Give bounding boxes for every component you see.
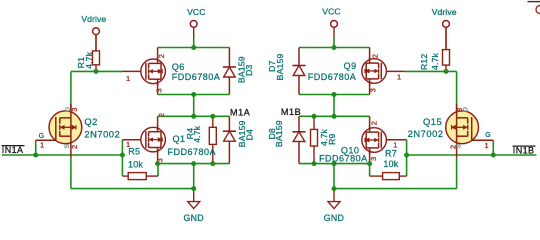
svg-text:D3: D3	[244, 64, 254, 75]
svg-text:GND: GND	[324, 213, 344, 223]
svg-text:R12: R12	[419, 54, 429, 70]
svg-text:Q2: Q2	[84, 116, 98, 127]
svg-text:3: 3	[156, 158, 165, 162]
svg-text:2: 2	[157, 54, 166, 58]
svg-text:VCC: VCC	[187, 7, 205, 17]
svg-text:2: 2	[70, 145, 79, 149]
svg-text:IN1B: IN1B	[513, 146, 535, 156]
svg-text:Q6: Q6	[172, 62, 185, 72]
svg-text:10k: 10k	[128, 160, 143, 170]
svg-text:Q1: Q1	[173, 134, 186, 144]
svg-text:M1B: M1B	[281, 107, 301, 117]
svg-text:Q15: Q15	[423, 116, 442, 127]
svg-text:VCC: VCC	[322, 7, 340, 17]
svg-text:FDD6780A: FDD6780A	[308, 72, 357, 82]
svg-text:2N7002: 2N7002	[84, 128, 120, 139]
svg-text:D: D	[462, 107, 469, 112]
svg-text:1: 1	[393, 141, 397, 150]
svg-text:BA159: BA159	[274, 120, 284, 147]
svg-text:4.7k: 4.7k	[430, 52, 440, 70]
svg-text:S: S	[64, 143, 71, 148]
svg-text:G: G	[485, 132, 491, 139]
svg-text:D4: D4	[244, 129, 254, 140]
svg-text:FDD6780A: FDD6780A	[168, 147, 217, 157]
svg-text:2: 2	[370, 121, 379, 125]
svg-text:G: G	[39, 133, 45, 140]
svg-text:2: 2	[371, 54, 380, 58]
svg-text:1: 1	[397, 72, 401, 81]
svg-text:S: S	[456, 143, 463, 148]
svg-text:1: 1	[126, 140, 130, 149]
svg-text:GND: GND	[183, 213, 203, 223]
svg-text:Q9: Q9	[344, 61, 357, 71]
svg-text:2N7002: 2N7002	[408, 128, 444, 139]
svg-text:R7: R7	[385, 149, 397, 159]
svg-text:BA159: BA159	[275, 53, 285, 80]
svg-text:FDD6780A: FDD6780A	[319, 153, 368, 163]
svg-text:1: 1	[40, 141, 44, 150]
svg-text:IN1A: IN1A	[2, 145, 24, 155]
svg-text:4.7k: 4.7k	[192, 125, 202, 143]
svg-text:Vdrive: Vdrive	[81, 14, 106, 24]
svg-text:3: 3	[155, 88, 164, 92]
svg-text:1: 1	[485, 141, 489, 150]
svg-text:Vdrive: Vdrive	[432, 7, 457, 17]
svg-text:FDD6780A: FDD6780A	[172, 72, 221, 82]
svg-text:10k: 10k	[383, 159, 398, 169]
svg-text:2: 2	[157, 113, 166, 117]
svg-text:4.7k: 4.7k	[84, 51, 94, 69]
svg-text:3: 3	[369, 157, 378, 161]
svg-text:R9: R9	[327, 133, 337, 144]
svg-text:M1A: M1A	[230, 108, 250, 118]
svg-text:3: 3	[369, 88, 378, 92]
svg-text:D: D	[64, 107, 71, 112]
svg-text:1: 1	[126, 74, 130, 83]
